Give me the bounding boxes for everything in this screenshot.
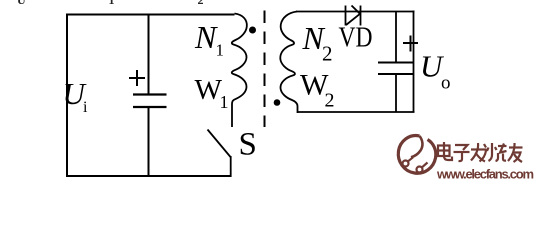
output capacitor top plate [378,62,414,64]
wire: input loop bottom horizontal [66,175,232,177]
watermark hanzi 友 [508,143,523,162]
switch S blade (open) [208,130,231,158]
svg-text:N: N [194,19,218,55]
label N1 [194,19,224,60]
primary winding W1 (coil, bumps to the right) [232,14,247,128]
watermark hanzi 电 [438,142,452,160]
label N2 [302,20,333,66]
plus sign at input capacitor [129,70,145,86]
svg-text:2: 2 [325,90,335,112]
svg-text:1: 1 [220,92,229,112]
label W1 [195,74,229,112]
capacitor C1 top plate [133,93,167,95]
svg-text:i: i [83,99,88,116]
svg-text:www.elecfans.com: www.elecfans.com [436,167,534,182]
plus sign at output capacitor [403,36,418,52]
wire: input loop top horizontal [66,14,235,16]
watermark hanzi 子 [454,145,470,161]
watermark hanzi 烧 [487,143,507,161]
svg-text:VD: VD [339,23,373,54]
capacitor C1 top lead [148,15,150,95]
phase dot primary [249,27,256,34]
wire: secondary top horizontal [296,11,415,13]
transformer core dashed line [264,11,266,128]
wire: output right vertical [413,11,415,113]
svg-text:1: 1 [216,41,225,60]
svg-text:1: 1 [109,0,115,7]
svg-text:S: S [239,127,257,163]
label Uo [420,49,451,94]
svg-text:U: U [17,0,26,7]
diode VD [346,6,361,26]
label Ui [63,76,89,116]
watermark hanzi 发 [471,143,487,162]
watermark logo (elecfans circle) [398,136,436,174]
wire: output bottom horizontal [297,111,415,113]
output capacitor bottom plate [378,73,414,75]
phase dot secondary [274,99,281,106]
output capacitor bottom lead [395,74,397,113]
output capacitor top lead [395,12,397,63]
svg-text:2: 2 [198,0,204,7]
switch S lead to bottom wire [230,156,232,177]
wire: input loop left vertical [66,14,68,178]
svg-text:2: 2 [322,42,333,66]
capacitor C1 bottom lead [148,107,150,176]
svg-text:o: o [441,73,451,94]
svg-text:W: W [195,74,223,106]
secondary winding W2 (coil, bumps to the left) [280,12,297,114]
label W2 [300,69,335,112]
capacitor C1 bottom plate [133,106,167,108]
